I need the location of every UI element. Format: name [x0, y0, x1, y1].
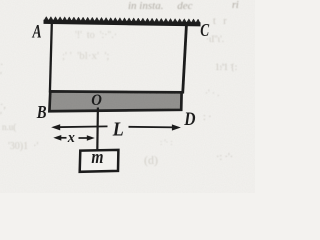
svg-text:L: L [112, 119, 124, 141]
svg-text:C: C [200, 21, 209, 40]
svg-text:O: O [91, 91, 102, 109]
svg-text:m: m [91, 146, 103, 167]
svg-text:A: A [32, 20, 42, 42]
svg-text:B: B [36, 102, 47, 123]
svg-text:x: x [67, 129, 75, 145]
svg-text:D: D [183, 109, 196, 130]
